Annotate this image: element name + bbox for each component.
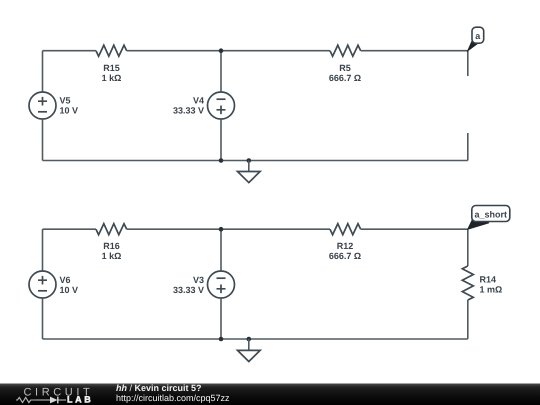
voltage source V5 — [29, 92, 78, 119]
svg-text:1 mΩ: 1 mΩ — [480, 285, 503, 295]
svg-text:33.33 V: 33.33 V — [173, 285, 204, 295]
wire bottom rail of bottom circuit — [43, 338, 468, 340]
wire top rail left segment (V5 top to R15) — [43, 50, 97, 52]
voltage source V3 — [173, 271, 235, 298]
svg-text:10 V: 10 V — [60, 106, 79, 116]
svg-text:10 V: 10 V — [60, 285, 79, 295]
svg-text:666.7 Ω: 666.7 Ω — [329, 73, 361, 83]
svg-text:1 kΩ: 1 kΩ — [102, 251, 122, 261]
voltage source V4 — [173, 92, 235, 119]
node a_short flag — [468, 206, 510, 230]
svg-text:V6: V6 — [60, 275, 71, 285]
svg-text:hh / Kevin circuit 5?: hh / Kevin circuit 5? — [116, 383, 202, 393]
CircuitLab logo wordmark CIRCUIT — [24, 386, 94, 398]
svg-text:R16: R16 — [103, 241, 120, 251]
wire right vertical lower stub (to bottom rail) — [467, 133, 469, 161]
wire V3 branch upper (top rail to V3) — [220, 229, 222, 271]
wire right vertical upper stub (node a downward) — [467, 51, 469, 76]
wire top rail right segment (R5 to node a) — [361, 50, 468, 52]
wire top rail left segment (V6 top to R16) — [43, 228, 97, 230]
wire bottom rail of top circuit — [43, 160, 468, 162]
svg-text:LAB: LAB — [67, 395, 93, 405]
svg-text:R14: R14 — [480, 275, 497, 285]
node a flag — [468, 27, 484, 51]
ground (top circuit) — [238, 161, 261, 183]
svg-text:666.7 Ω: 666.7 Ω — [329, 251, 361, 261]
svg-text:1 kΩ: 1 kΩ — [102, 73, 122, 83]
junction dot top rail at V3 branch — [219, 227, 224, 232]
footer url line — [116, 393, 230, 403]
svg-text:R12: R12 — [337, 241, 354, 251]
svg-text:V3: V3 — [193, 275, 204, 285]
CircuitLab logo wordmark LAB — [67, 395, 93, 405]
wire V4 branch lower (V4 to bottom rail) — [220, 119, 222, 161]
junction dot bottom rail at ground — [247, 158, 252, 163]
wire V4 branch upper (top rail to V4) — [220, 51, 222, 92]
junction dot bottom rail at V3 branch — [219, 337, 224, 342]
wire top rail middle segment (R16 to R12) — [127, 228, 330, 230]
resistor R15 — [96, 45, 127, 83]
svg-text:R15: R15 — [103, 63, 120, 73]
wire left vertical lower (V6 to bottom rail) — [42, 298, 44, 339]
resistor R16 — [96, 224, 127, 261]
wire top rail middle segment (R15 to R5) — [127, 50, 330, 52]
junction dot top rail at V4 branch — [219, 48, 224, 53]
svg-text:R5: R5 — [339, 63, 351, 73]
footer bar background — [0, 384, 540, 405]
svg-text:33.33 V: 33.33 V — [173, 106, 204, 116]
resistor R12 — [329, 224, 361, 261]
voltage source V6 — [29, 271, 78, 298]
resistor R5 — [329, 45, 361, 83]
wire V3 branch lower (V3 to bottom rail) — [220, 298, 222, 339]
svg-text:V5: V5 — [60, 96, 71, 106]
resistor R14 — [462, 266, 502, 300]
wire R14 branch upper (node a_short to R14) — [467, 229, 469, 266]
junction dot bottom rail at ground — [247, 337, 252, 342]
CircuitLab logo schematic squiggle (resistor + diode) — [16, 397, 66, 404]
footer title line: hh / Kevin circuit 5? — [116, 383, 202, 393]
wire left vertical upper (top rail to V5) — [42, 51, 44, 92]
svg-text:a_short: a_short — [475, 209, 508, 219]
svg-text:V4: V4 — [193, 96, 204, 106]
svg-text:http://circuitlab.com/cpq57zz: http://circuitlab.com/cpq57zz — [116, 393, 230, 403]
wire R14 branch lower (R14 to bottom rail) — [467, 300, 469, 339]
wire left vertical upper (top rail to V6) — [42, 229, 44, 271]
junction dot bottom rail at V4 branch — [219, 158, 224, 163]
ground (bottom circuit) — [238, 339, 261, 362]
wire left vertical lower (V5 to bottom rail) — [42, 119, 44, 161]
wire top rail right segment (R12 to node a_short) — [361, 228, 468, 230]
